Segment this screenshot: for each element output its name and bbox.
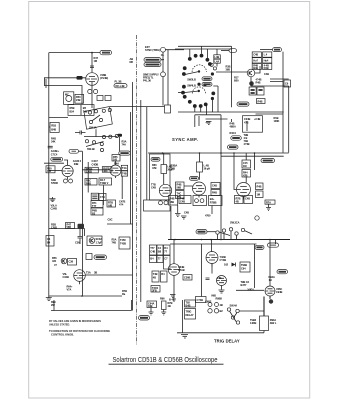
valve V2 (left column triode) (62, 165, 73, 179)
svg-text:162: 162 (224, 263, 229, 267)
box C36B (183, 275, 192, 281)
svg-text:CL: CL (161, 53, 165, 57)
wire drop mid (211, 206, 213, 215)
svg-text:C9B2: C9B2 (205, 300, 212, 304)
svg-text:SW.4A: SW.4A (230, 304, 238, 308)
box R18 on rail (49, 122, 59, 132)
box: R50 divider (75, 94, 84, 103)
svg-text:Solartron CD51B & CD56B Oscill: Solartron CD51B & CD56B Oscilloscope (113, 355, 218, 364)
box pair bottom right (257, 87, 264, 95)
box T93B (240, 262, 250, 272)
wire nested frame upper (178, 111, 284, 113)
wire pair to feedback rails (270, 79, 289, 82)
wire V10 top (269, 252, 271, 299)
box R97B 400 (102, 166, 112, 173)
svg-text:Hu?: Hu? (253, 58, 258, 62)
svg-text:B4B: B4B (186, 303, 191, 307)
svg-text:CONTROL KNOB.: CONTROL KNOB. (51, 332, 74, 336)
svg-text:SW.3CA: SW.3CA (230, 221, 240, 225)
svg-text:SYNC AMP.: SYNC AMP. (172, 137, 198, 142)
box small left of pill (86, 254, 92, 260)
wire top sync bus upper (178, 45, 232, 47)
wire: lower left feed y=85.5 (44, 86, 82, 105)
svg-text:A/B: A/B (108, 203, 112, 207)
box bottom mid C4B (196, 297, 207, 303)
svg-text:C4B: C4B (151, 186, 156, 190)
wire V6 anode (234, 153, 255, 190)
svg-text:4?4: 4?4 (119, 202, 124, 206)
svg-text:36μH: 36μH (167, 168, 173, 172)
wire verticals lower mid (174, 240, 255, 297)
connector pill dark SW3 (196, 230, 207, 234)
box column L: Hu? (252, 58, 261, 63)
valve V8 (206, 252, 218, 267)
resistor R47b boxed (66, 223, 75, 230)
svg-text:V7AB: V7AB (178, 268, 185, 272)
switch SW3A arm (219, 231, 252, 236)
svg-text:49BA: 49BA (230, 125, 236, 129)
svg-text:57008: 57008 (51, 181, 58, 185)
connector pill INPUT (C150) (100, 50, 112, 54)
wire y=114 right segment (256, 113, 284, 115)
wire T40B down (102, 185, 104, 205)
valve V3 (110, 165, 121, 178)
connector pill SYNC FREQ (144, 58, 161, 62)
svg-text:C?C4: C?C4 (51, 153, 58, 157)
svg-text:34B: 34B (148, 304, 153, 308)
socket circle right (255, 216, 259, 220)
inductor box L4B (214, 49, 221, 67)
connector pill C45A (94, 255, 107, 259)
valve V11 (74, 270, 86, 285)
valve V10 (265, 286, 275, 299)
junction dots bus y153 (162, 152, 164, 154)
svg-text:L4A: L4A (215, 59, 220, 63)
svg-text:400: 400 (103, 169, 108, 173)
wire R55 to V3 (115, 161, 117, 165)
left rail x=48.8 (48, 53, 50, 296)
svg-text:B477: B477 (241, 283, 247, 287)
connector pill TRIG FREQ (144, 62, 161, 66)
box with sockets (144, 200, 171, 211)
divider dash-dot line (136, 35, 138, 345)
wire wafer to VT1 (216, 71, 247, 73)
connector pill open right (268, 243, 279, 247)
box R71 T77 stack (91, 201, 103, 208)
valve V5 (193, 182, 206, 198)
valve V1 (input cathode follower) (86, 73, 99, 86)
svg-text:T4B: T4B (153, 272, 158, 276)
svg-text:C94B: C94B (276, 290, 282, 294)
svg-text:34K: 34K (51, 139, 56, 143)
box: mains unit (left small) (64, 92, 74, 105)
ground top of left column (50, 197, 56, 202)
wire right corner drop (231, 46, 233, 107)
svg-text:C34B: C34B (63, 275, 69, 279)
wire switch to rail (239, 310, 264, 312)
wire top sync bus lower (175, 48, 232, 50)
svg-text:R96: R96 (160, 297, 165, 301)
svg-text:R4B: R4B (257, 185, 262, 189)
ground left small (149, 312, 154, 315)
wire V5 anode (184, 176, 200, 186)
wire y=310.5 bottom left (51, 310, 132, 312)
wire y290.3 to V10 column (236, 289, 264, 291)
wire resistor bottom to bus (263, 331, 265, 333)
connector oval DC-L4B (114, 84, 127, 88)
ground pair left (175, 214, 181, 217)
wire wafer right corner (213, 86, 218, 112)
box R47 T40B (99, 178, 112, 185)
connector pill -24B right (277, 270, 288, 274)
svg-text:39B: 39B (226, 68, 231, 72)
wire feed y=169.8 (82, 169, 110, 171)
box column L: R4B (252, 64, 261, 71)
box C7BB (99, 193, 106, 200)
transistor VT2 (61, 258, 67, 264)
transistor VT1 (247, 69, 255, 77)
svg-text:(CV4B): (CV4B) (100, 76, 108, 80)
box column L: C4B (252, 52, 261, 57)
wire wafer bottoms down (199, 116, 247, 131)
switch SW1B arm (86, 142, 104, 147)
connector pill above V5 (190, 177, 199, 181)
wire rail to box y117.5 (49, 117, 68, 119)
wire right vertical feedback x=288.7 (288, 86, 290, 153)
svg-text:36 μH: 36 μH (204, 167, 211, 171)
ground right small (161, 312, 166, 315)
svg-text:R9B8: R9B8 (216, 297, 223, 301)
box column R: D4B (263, 64, 272, 71)
grid box 2 (157, 245, 163, 255)
svg-text:2W: 2W (51, 303, 55, 307)
resistor stub x=54 (53, 300, 55, 311)
connector pill CAL (139, 316, 150, 320)
wire x=270 drop (270, 240, 276, 253)
svg-text:C7B: C7B (100, 195, 105, 199)
svg-text:434: 434 (52, 259, 57, 263)
svg-text:B54: B54 (70, 110, 75, 114)
box pair bottom of cluster (249, 87, 256, 95)
box R55 (112, 155, 120, 162)
wire left stub vertical (44, 78, 46, 86)
resistor R78 top right (265, 200, 275, 204)
wire right vertical feedback x=283 (282, 52, 284, 153)
box R9C R4B (85, 179, 97, 186)
svg-text:D4B: D4B (264, 66, 269, 70)
switch SW1B lower contacts (85, 140, 88, 143)
svg-text:56B: 56B (177, 186, 182, 190)
svg-text:14DB: 14DB (250, 321, 256, 325)
svg-text:DC-L4B: DC-L4B (116, 84, 125, 88)
svg-text:Hu4: Hu4 (264, 58, 269, 62)
wire under pill (44, 162, 64, 164)
svg-text:C94: C94 (241, 267, 246, 271)
wire x=132 corner into y310 (131, 300, 133, 311)
svg-text:B4B: B4B (51, 128, 56, 132)
wire vertical bus x=147 (146, 107, 148, 200)
wire V1 cathode down to SW1A (91, 85, 93, 108)
box T4A (121, 165, 127, 170)
svg-text:170B: 170B (51, 225, 57, 229)
box PSU top-left with labels (68, 105, 94, 116)
svg-text:B4B: B4B (253, 66, 258, 70)
box R74B (235, 196, 244, 204)
box C94A (147, 301, 157, 308)
svg-text:T45C: T45C (120, 238, 126, 242)
svg-text:3FB: 3FB (152, 289, 157, 293)
switch SW1A wafer box (84, 107, 112, 130)
switch SW1B contacts (102, 135, 105, 138)
box delay-line region (150, 154, 171, 200)
wire drop from box row (177, 205, 179, 213)
wire drop left to bus (170, 206, 172, 239)
wire stub from border (45, 79, 47, 88)
svg-text:3B: 3B (94, 271, 97, 275)
svg-text:150B: 150B (86, 170, 92, 174)
switch SW4A contacts (227, 308, 230, 311)
box socket pair mid (193, 196, 207, 206)
title underline (109, 363, 224, 365)
wire SW1A wiper down (95, 129, 97, 136)
svg-text:UNLESS STATED.: UNLESS STATED. (49, 322, 70, 326)
ground below wafer (206, 122, 212, 125)
svg-text:T40B V: T40B V (100, 181, 109, 185)
box C24B network (243, 116, 263, 133)
svg-text:47B: 47B (152, 166, 157, 170)
box T92 upper (185, 300, 196, 307)
V2 heater pins (63, 179, 67, 183)
box B4+ R7BB (209, 196, 223, 206)
connector pill dark mid right (231, 136, 242, 140)
grid box 4 (150, 256, 157, 263)
box on feedback wire (284, 80, 291, 87)
resistor R96 vertical (160, 297, 166, 310)
capacitor -24B (206, 278, 210, 280)
svg-text:SW3LB: SW3LB (187, 78, 196, 82)
wire V8 anode to bus (211, 240, 214, 274)
ground below V9 (219, 288, 225, 293)
box C4B right (244, 196, 253, 204)
svg-text:AC3B+: AC3B+ (51, 149, 60, 153)
bus: long horizontal y=153 (148, 152, 289, 154)
box P9B stack2 (91, 208, 103, 215)
connector pill top right (260, 48, 282, 52)
grid box 6 (164, 256, 171, 270)
svg-text:T3A: T3A (86, 271, 91, 275)
box row: box R4B left (169, 196, 178, 206)
socket pair row1 (208, 303, 212, 307)
wire: vertical x=132 upper segment (132, 82, 134, 108)
svg-text:V7A: V7A (67, 288, 72, 292)
svg-text:T4A: T4A (122, 166, 127, 170)
resistor R46 blob on grid feed (77, 76, 83, 80)
svg-text:4B: 4B (168, 304, 171, 308)
box T4B lower (152, 271, 159, 282)
svg-text:R4B: R4B (256, 81, 261, 85)
wire T4B down (121, 176, 123, 199)
box earth bottom (91, 193, 98, 200)
svg-text:+C4B: +C4B (254, 117, 261, 121)
ground bottom left of V7 (170, 295, 176, 298)
bus: long horizontal y=239.5 (168, 239, 290, 241)
connector pill in delay box (151, 157, 160, 161)
wire wafer2 bottom drops (195, 99, 213, 115)
wire SK1 to sync bus (165, 49, 184, 51)
svg-text:T4B: T4B (122, 172, 127, 176)
svg-text:PL.3B: PL.3B (115, 80, 122, 84)
svg-text:T77: T77 (150, 246, 155, 250)
svg-text:CY3B: CY3B (220, 258, 227, 262)
box R4 lower (161, 271, 168, 282)
wire SW1A top to bus (110, 106, 165, 108)
wire below wafer to sync amp (194, 115, 196, 127)
wire from SK1 (161, 52, 164, 72)
box TRIG DELAY unit (185, 309, 196, 320)
box L4B choke (197, 153, 203, 176)
box column R: L4 (263, 52, 272, 57)
wire: grid feed into V1 (44, 77, 86, 79)
wire y=275 mid (85, 274, 132, 276)
ground below R78 (266, 204, 271, 210)
svg-text:47B: 47B (244, 121, 249, 125)
diode MR1 (232, 263, 236, 267)
choke L.B above V4 (161, 153, 173, 184)
wire second bus y=156.2 (221, 155, 284, 157)
svg-text:4700: 4700 (205, 214, 211, 218)
connector pill right of V6 (261, 158, 275, 162)
svg-text:1M: 1M (257, 193, 260, 197)
svg-text:B00: B00 (234, 79, 239, 83)
connector oval C555 mid-left (69, 149, 79, 153)
svg-text:C36: C36 (75, 241, 80, 245)
svg-text:TRIG DELAY: TRIG DELAY (214, 339, 240, 344)
box R4B right of V5 (211, 190, 220, 196)
wire pill to contacts (207, 231, 216, 233)
wire pair vertical x130.4 (129, 112, 131, 224)
valve V7 (168, 264, 180, 302)
svg-text:B4+: B4+ (210, 197, 215, 201)
svg-text:MC: MC (65, 93, 69, 97)
capacitor C2 pair right of rail (75, 131, 86, 135)
svg-text:R4C4: R4C4 (230, 131, 237, 135)
transistor blob lower (249, 81, 254, 86)
svg-text:L4B: L4B (215, 55, 220, 59)
wire: drop from node A to V1 grid (91, 53, 93, 73)
svg-text:4B: 4B (236, 200, 239, 204)
wire long y=332.8 (177, 332, 264, 334)
wire y=296 bottom left (49, 295, 122, 297)
svg-text:C24B: C24B (244, 117, 250, 121)
svg-text:C4B: C4B (264, 72, 269, 76)
svg-text:4B2 L: 4B2 L (270, 321, 277, 325)
box pair right of V6 (256, 183, 264, 190)
switch SW3A contacts (216, 231, 219, 234)
svg-text:C36B: C36B (184, 276, 190, 280)
svg-text:700: 700 (47, 169, 52, 173)
svg-text:T45B: T45B (120, 242, 126, 246)
switch SW2B wafer ring (178, 83, 215, 108)
svg-text:C4B: C4B (253, 53, 258, 57)
socket SK1 circle (161, 47, 166, 52)
svg-text:74A: 74A (122, 143, 127, 147)
wire: top input bus y=52.6 (49, 52, 100, 54)
svg-text:SW.1A: SW.1A (89, 125, 97, 129)
wire y=228.6 left (49, 228, 85, 230)
svg-text:V9E4: V9E4 (248, 288, 255, 292)
svg-text:C34B: C34B (51, 207, 57, 211)
grid box 3 (164, 245, 171, 255)
svg-text:R1B: R1B (51, 124, 56, 128)
box R7B4 150B (85, 167, 98, 174)
wires drop to ground (151, 308, 164, 313)
svg-text:R7BB: R7BB (210, 200, 217, 204)
node A junction on input bus (91, 52, 93, 54)
wire vertical x=221 (220, 115, 222, 240)
junction dots on y296 (81, 295, 83, 297)
box T4B (121, 171, 127, 176)
box R4B between V4 V5 (176, 182, 185, 190)
box C4B right of V5 (211, 183, 220, 189)
valve V9 (217, 276, 227, 289)
svg-text:R4B: R4B (212, 191, 217, 195)
connector pill top C21 (221, 49, 237, 53)
switch SW4A arm (230, 311, 238, 322)
svg-text:56R: 56R (67, 225, 72, 229)
svg-text:SYNC (TRIG): SYNC (TRIG) (145, 48, 160, 52)
box left small (46, 236, 54, 247)
svg-text:24B: 24B (76, 98, 81, 102)
junction dots bus y239.5 (174, 239, 176, 241)
box column R: Hu4 (263, 58, 272, 63)
svg-text:C36: C36 (69, 260, 74, 264)
svg-text:TRIG: TRIG (186, 310, 192, 314)
wire contact stubs to bus (218, 231, 237, 240)
capacitor C34 ticks (48, 146, 53, 148)
valve V6 (237, 183, 251, 200)
svg-text:SW4LB: SW4LB (187, 83, 196, 87)
connector pill dark mid wafer 2 (202, 82, 212, 86)
wire: V2 anode up (64, 160, 68, 165)
svg-text:1M: 1M (243, 164, 246, 168)
junction blob (118, 134, 123, 137)
inductor box L4A (214, 59, 221, 63)
box R44 column (242, 170, 251, 178)
svg-text:B 4B?: B 4B? (169, 298, 177, 302)
box T4C between V4 V5 (176, 191, 185, 199)
wire drop x=168 (167, 50, 169, 105)
svg-text:R7A: R7A (266, 200, 271, 204)
svg-text:4B: 4B (220, 303, 223, 307)
wire from SK2 down (162, 77, 164, 106)
wire contact row (84, 136, 117, 138)
ground at rail bottom (46, 296, 52, 300)
svg-text:C?4B: C?4B (197, 298, 204, 302)
wire x=132 lower segment (132, 108, 134, 311)
svg-text:100K: 100K (274, 119, 280, 123)
svg-text:4??: 4?? (206, 121, 211, 125)
resistor R94A vertical box (260, 316, 269, 331)
valve V4 (159, 184, 171, 196)
switch SW2A wafer ring (182, 46, 216, 76)
svg-text:T93B: T93B (241, 263, 247, 267)
grid box 5 (157, 256, 163, 263)
svg-text:C9C: C9C (108, 218, 113, 222)
socket SK2 circle (161, 72, 166, 77)
wire nested frame lower (195, 114, 221, 116)
svg-text:C4B: C4B (150, 250, 155, 254)
bus: horizontal y=246 (170, 243, 257, 245)
